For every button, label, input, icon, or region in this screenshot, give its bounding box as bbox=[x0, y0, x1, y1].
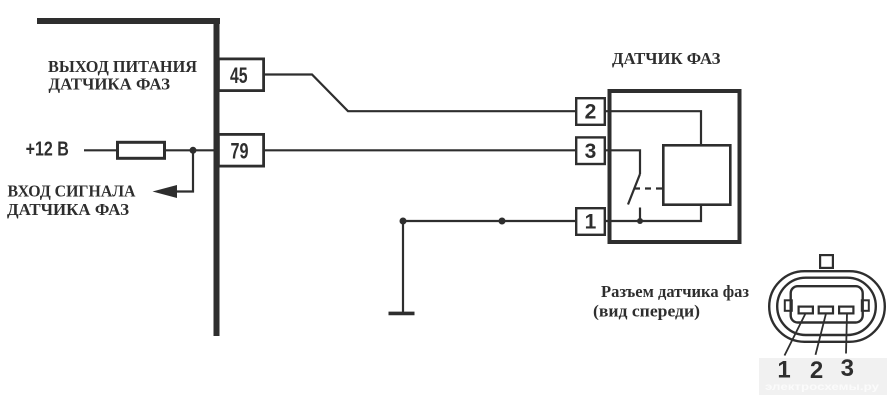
connector key tab bbox=[820, 255, 833, 268]
wire: ground run to sensor pin 1 bbox=[403, 220, 575, 222]
ECU controller boundary (thick corner line) bbox=[37, 18, 220, 336]
label: ВЫХОД ПИТАНИЯ ДАТЧИКА ФАЗ bbox=[48, 57, 197, 94]
switch lower contact bbox=[639, 208, 641, 222]
label: ВХОД СИГНАЛА ДАТЧИКА ФАЗ bbox=[7, 182, 136, 219]
svg-text:ДАТЧИКА ФАЗ: ДАТЧИКА ФАЗ bbox=[49, 74, 171, 93]
connector pin slot 2 bbox=[819, 307, 833, 314]
hall element (inner box) bbox=[663, 145, 730, 204]
sensor pin 3 bbox=[576, 137, 605, 164]
svg-text:+12 В: +12 В bbox=[26, 139, 69, 161]
wire: resistor to ECU pin 79 bbox=[165, 149, 219, 151]
svg-text:1: 1 bbox=[777, 356, 790, 383]
connector pin slot 3 bbox=[839, 307, 853, 314]
internal wire: pin 2 to hall element bbox=[606, 111, 701, 144]
svg-text:ВЫХОД ПИТАНИЯ: ВЫХОД ПИТАНИЯ bbox=[48, 57, 197, 76]
connector outer shell bbox=[769, 271, 885, 342]
sensor pin 2 bbox=[576, 98, 605, 125]
ECU pin 79 bbox=[218, 134, 263, 166]
leader line pin 3 bbox=[846, 314, 847, 354]
ground symbol bbox=[389, 312, 415, 316]
wire: ECU pin 45 to sensor pin 2 bbox=[265, 75, 575, 112]
arrowhead: signal input direction bbox=[153, 185, 178, 198]
sensor pin 1 bbox=[576, 208, 605, 235]
svg-text:1: 1 bbox=[585, 211, 597, 234]
watermark panel bbox=[759, 358, 887, 395]
svg-text:3: 3 bbox=[585, 140, 597, 163]
junction: ground node B bbox=[499, 218, 506, 225]
svg-text:2: 2 bbox=[585, 101, 597, 124]
svg-text:3: 3 bbox=[841, 355, 854, 382]
junction: ground node A bbox=[400, 218, 407, 225]
label: Разъем датчика фаз (вид спереди) bbox=[593, 282, 749, 321]
leader line pin 1 bbox=[785, 314, 806, 356]
wire: +12 V to resistor bbox=[84, 149, 117, 151]
junction: signal node bbox=[190, 147, 197, 154]
svg-text:(вид спереди): (вид спереди) bbox=[593, 302, 700, 321]
phase sensor body U1 bbox=[610, 91, 740, 242]
svg-text:ДАТЧИК ФАЗ: ДАТЧИК ФАЗ bbox=[612, 49, 721, 68]
ECU pin 45 bbox=[218, 59, 263, 91]
leader line pin 2 bbox=[816, 314, 827, 355]
switch actuation dashed link bbox=[634, 187, 662, 189]
switch Q1 (open-collector output blade) bbox=[628, 174, 640, 205]
wire: signal tap down and left bbox=[176, 150, 193, 191]
wire: ECU pin 79 to sensor pin 3 bbox=[265, 149, 575, 151]
svg-text:2: 2 bbox=[810, 357, 823, 384]
svg-text:ВХОД СИГНАЛА: ВХОД СИГНАЛА bbox=[8, 182, 137, 201]
connector left notch bbox=[785, 300, 792, 311]
internal wire: pin 1 to hall element bbox=[606, 205, 701, 221]
connector socket frame bbox=[791, 286, 863, 322]
connector inner ring bbox=[777, 278, 876, 335]
junction: internal ground node bbox=[637, 218, 643, 224]
resistor (pull-up) bbox=[118, 142, 165, 158]
wire: ground drop bbox=[402, 221, 404, 312]
svg-text:ДАТЧИКА ФАЗ: ДАТЧИКА ФАЗ bbox=[7, 200, 129, 219]
internal wire: pin 3 to output switch bbox=[606, 150, 640, 174]
svg-text:79: 79 bbox=[231, 138, 249, 163]
connector pin slot 1 bbox=[799, 307, 813, 314]
svg-text:Разъем датчика фаз: Разъем датчика фаз bbox=[601, 282, 749, 301]
connector right notch bbox=[862, 300, 869, 311]
svg-text:45: 45 bbox=[230, 63, 248, 88]
